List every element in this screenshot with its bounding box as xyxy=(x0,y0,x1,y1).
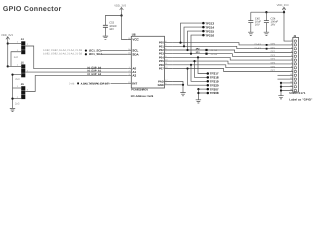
svg-text:VDD_3V3: VDD_3V3 xyxy=(277,4,289,7)
svg-text:TP208: TP208 xyxy=(210,91,219,95)
svg-text:21-A3: 21-A3 xyxy=(211,49,218,52)
jumper J6 xyxy=(21,83,26,99)
jumper J5 xyxy=(21,61,26,77)
ground (below C53) xyxy=(103,36,108,39)
wire VDD to J4 pin 1 xyxy=(8,43,21,45)
power flag VDD_3V3 (middle) xyxy=(120,8,124,12)
wire left VDD rail xyxy=(7,41,9,67)
wire C45 to gnd xyxy=(250,23,252,32)
power flag VDD_3V3 (left) xyxy=(6,37,10,41)
node junction GND pin 14 xyxy=(280,89,282,91)
test point TP214 xyxy=(184,27,203,46)
wire P01 to connector xyxy=(172,46,292,48)
wire C54 to gnd xyxy=(265,23,267,32)
svg-text:2x3: 2x3 xyxy=(15,102,20,105)
svg-text:16V: 16V xyxy=(271,24,276,27)
wire GND rail left xyxy=(12,75,14,109)
ground (test points) xyxy=(196,100,201,103)
wire VDD to U8 VCC xyxy=(122,16,128,40)
ground (U8) xyxy=(180,93,185,96)
wire J5 pin 2 to U8 A1 xyxy=(25,71,127,73)
svg-text:IO_EXP_A2: IO_EXP_A2 xyxy=(88,73,102,76)
wire P07 to connector xyxy=(172,69,292,72)
svg-text:PCA9534RGV: PCA9534RGV xyxy=(131,89,148,92)
wire connector pin 10 stub xyxy=(278,74,293,76)
wire GND rail to J6 lower pin xyxy=(13,98,22,100)
svg-text:GND: GND xyxy=(158,83,164,87)
node net label dot SDA xyxy=(85,53,87,55)
test point TP219 xyxy=(191,65,207,82)
wire I2C1_SCL to U8 xyxy=(101,50,127,52)
svg-text:53261-1171: 53261-1171 xyxy=(289,91,306,95)
U8 left pin stubs xyxy=(127,40,131,84)
node junction GND rail xyxy=(11,97,13,99)
ground (connector) xyxy=(278,96,283,99)
wire INT to U8 xyxy=(111,82,128,84)
connector pin numbers xyxy=(290,39,293,91)
svg-text:14-B2, 15-B2, 16-A4, 21-A4, 21: 14-B2, 15-B2, 16-A4, 21-A4, 21-D3 xyxy=(43,53,83,56)
wire VDD mid stem xyxy=(121,11,123,15)
capacitor C53 xyxy=(103,25,108,27)
svg-text:2-A6: 2-A6 xyxy=(69,82,75,85)
connector stub net names xyxy=(271,43,276,73)
svg-text:I2C1_SDA: I2C1_SDA xyxy=(89,52,102,56)
svg-text:14-B2, 15-B2, 16-A4, 21-A4, 21: 14-B2, 15-B2, 16-A4, 21-A4, 21-D3 xyxy=(43,49,83,52)
wire VDD to C53 xyxy=(105,16,121,26)
node net label square P00 xyxy=(266,44,268,46)
svg-text:GP4: GP4 xyxy=(271,58,276,61)
svg-text:2x3: 2x3 xyxy=(15,78,20,81)
wire I2C1_SDA to U8 xyxy=(101,53,127,55)
wire P06 to connector xyxy=(172,65,292,68)
test point TP213 xyxy=(181,23,203,42)
node junction rail/J4 xyxy=(7,42,9,44)
node junction GND pin 13 xyxy=(280,86,282,88)
node junction GND rail top xyxy=(11,74,13,76)
test point TP215 xyxy=(188,31,203,50)
jumper J4 xyxy=(21,38,26,54)
test point TP216 xyxy=(191,35,203,54)
ground (bottom left) xyxy=(10,108,15,111)
svg-text:GP5: GP5 xyxy=(271,62,276,65)
node junction rail/J5 xyxy=(7,65,9,67)
test point TP220 xyxy=(188,69,207,86)
test point TP218 xyxy=(195,61,207,77)
ground (C54) xyxy=(264,32,269,35)
svg-text:Label as "GPIO": Label as "GPIO" xyxy=(289,98,313,102)
svg-text:GP6: GP6 xyxy=(271,65,276,68)
wire GND chain to connector pins 11-13 xyxy=(281,83,293,96)
svg-text:A2: A2 xyxy=(132,73,136,77)
wire J6 pin 2 to U8 A2 xyxy=(25,75,127,91)
svg-text:VDD_3V3: VDD_3V3 xyxy=(1,34,13,37)
wire P02 to connector xyxy=(172,50,292,53)
node junction GND pin 12 xyxy=(280,82,282,84)
wire VDD to J5 pin 1 xyxy=(8,65,21,67)
wire J4 loop pin xyxy=(11,52,21,67)
wire C53 to gnd xyxy=(104,27,106,36)
node junction VDD/drop xyxy=(283,11,285,13)
wire GND rail to J5 lower pin xyxy=(13,74,22,76)
wire VDD right rail xyxy=(251,11,284,12)
svg-text:21-A3: 21-A3 xyxy=(211,53,218,56)
wire P00 to connector xyxy=(172,43,292,45)
svg-text:VDD_3V3: VDD_3V3 xyxy=(114,4,126,7)
svg-text:I2C Address: 0x26: I2C Address: 0x26 xyxy=(131,95,154,98)
wire connector pin 11 stub xyxy=(278,78,293,80)
svg-text:U8: U8 xyxy=(132,32,136,36)
svg-text:16V: 16V xyxy=(109,28,114,31)
svg-text:GP3: GP3 xyxy=(271,54,276,57)
wire P05 to connector xyxy=(172,61,292,64)
node junction VDD/C54 xyxy=(265,11,267,13)
svg-text:TP216: TP216 xyxy=(205,33,214,37)
svg-text:21-A3: 21-A3 xyxy=(254,43,261,46)
capacitor C45 xyxy=(250,12,252,20)
ground (C45) xyxy=(248,32,253,35)
node net label square P01 xyxy=(266,48,268,50)
svg-text:GP2: GP2 xyxy=(271,50,276,53)
wire P03 to connector xyxy=(172,54,292,57)
wire J4 pin 2 to U8 A0 xyxy=(25,46,127,69)
node junction VDD/C53 xyxy=(120,14,122,16)
svg-text:VCC: VCC xyxy=(132,38,139,42)
wire U8 PAD/GND to ground xyxy=(172,82,183,93)
connector pin circles xyxy=(294,40,296,92)
svg-text:GP1: GP1 xyxy=(271,46,276,49)
wire VDD drop to connector pin 1 xyxy=(284,12,293,41)
test point TP207 xyxy=(198,88,207,90)
svg-text:P07: P07 xyxy=(159,67,164,71)
svg-text:GPIO Connector: GPIO Connector xyxy=(3,6,62,13)
power flag VDD_3V3 (right) xyxy=(282,7,286,11)
wire P04 to connector xyxy=(172,57,292,60)
wire GND rail to J6 top pin xyxy=(13,87,22,89)
test point TP217 xyxy=(198,57,207,73)
svg-text:INT: INT xyxy=(132,81,137,85)
svg-text:16V: 16V xyxy=(255,24,260,27)
svg-text:SDA: SDA xyxy=(132,52,139,56)
svg-text:21-A3: 21-A3 xyxy=(254,47,261,50)
capacitor C54 xyxy=(265,12,267,20)
node net label dot SCL xyxy=(85,49,87,51)
svg-text:GP0: GP0 xyxy=(271,43,276,46)
svg-text:A_BAS_TXFS/GPIO_EXP_INT#: A_BAS_TXFS/GPIO_EXP_INT# xyxy=(81,82,111,85)
U8 right pin stubs xyxy=(165,43,173,85)
svg-text:1x2: 1x2 xyxy=(14,56,19,59)
test point TP208 xyxy=(198,89,207,100)
svg-text:GP7: GP7 xyxy=(271,69,276,72)
node net label square INT xyxy=(77,83,79,85)
